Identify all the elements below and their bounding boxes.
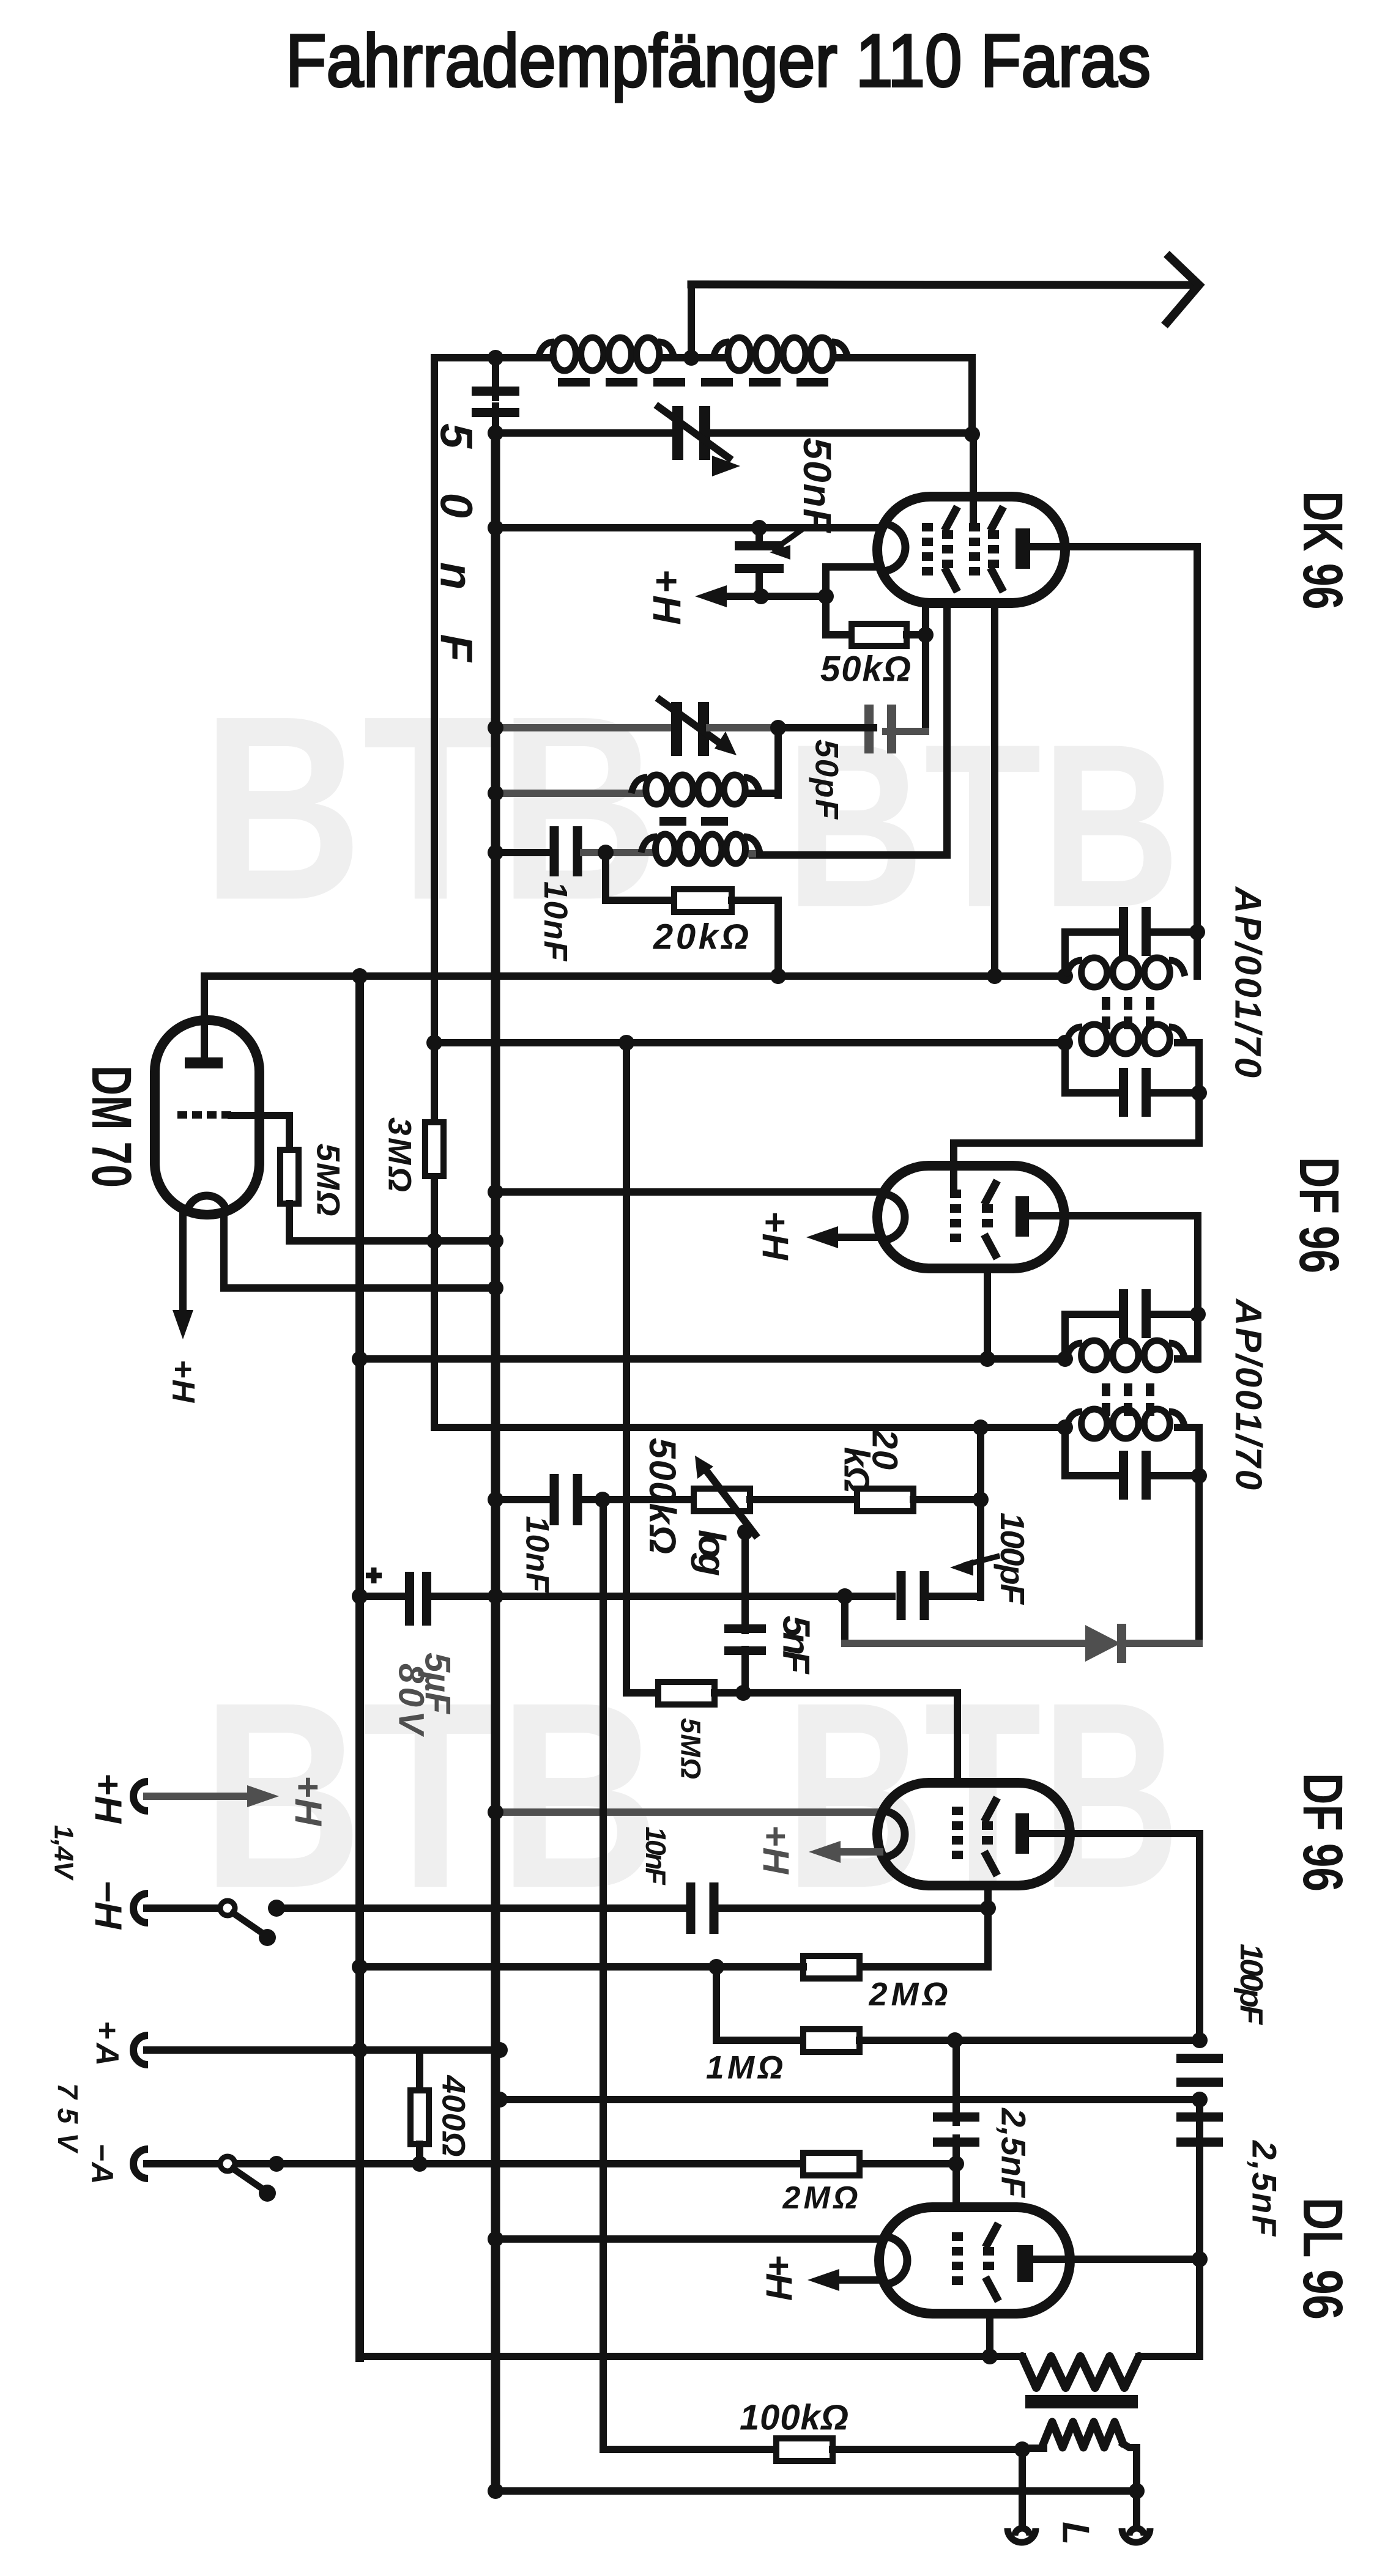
jack -H — [133, 1893, 148, 1923]
svg-text:+H: +H — [87, 1773, 129, 1824]
wire main bus V817 — [491, 433, 500, 2491]
node — [412, 2156, 428, 2172]
node — [982, 2348, 998, 2364]
wire — [1022, 2445, 1044, 2452]
capacitor 2.5nF b — [1176, 2112, 1223, 2122]
node — [1057, 1419, 1073, 1435]
tube DK96 grid g2 — [942, 530, 953, 539]
tube DM70 plate — [185, 1057, 223, 1068]
node — [1189, 924, 1205, 940]
IF1 core dashes — [1102, 997, 1110, 1010]
jack speaker 2 — [1122, 2528, 1150, 2542]
node — [980, 1900, 996, 1916]
wire — [662, 354, 726, 361]
node — [488, 2231, 503, 2247]
coil osc primary — [646, 775, 667, 804]
svg-text:+H: +H — [755, 1211, 796, 1261]
svg-text:50nF: 50nF — [795, 438, 839, 534]
node — [1057, 1351, 1073, 1367]
node — [1192, 2092, 1208, 2108]
node — [1057, 968, 1073, 984]
node — [918, 627, 934, 643]
potentiometer 500k — [694, 1489, 750, 1511]
wire — [277, 1904, 284, 1912]
node — [737, 1524, 753, 1540]
wire 20k branch — [606, 853, 674, 900]
wire DL96 plate lead — [1033, 2256, 1200, 2263]
node — [426, 1035, 442, 1051]
svg-text:+H: +H — [759, 2254, 800, 2301]
svg-text:2MΩ: 2MΩ — [869, 1976, 948, 2013]
node — [708, 1959, 724, 1975]
svg-text:500kΩ: 500kΩ — [642, 1438, 683, 1554]
node — [488, 2483, 503, 2499]
node — [947, 2032, 963, 2048]
wire DK96 g3 pin — [991, 603, 998, 976]
svg-text:2,5nF: 2,5nF — [1246, 2140, 1284, 2237]
wire — [741, 1649, 749, 1693]
wire osc fb row — [749, 850, 752, 857]
capacitor 5uF electrolytic — [405, 1572, 414, 1626]
wire V1603 — [977, 1427, 984, 1597]
tube DF96b plate — [1016, 1813, 1029, 1854]
wire DF96b g1 pin — [984, 1886, 992, 1908]
node — [492, 2092, 508, 2108]
wire — [710, 724, 778, 731]
node — [1191, 1085, 1207, 1101]
tube DF96a filament — [882, 1194, 905, 1240]
wire grid2 pin — [752, 602, 947, 855]
capacitor 10nF af — [550, 1474, 559, 1525]
node — [488, 1280, 503, 1296]
wire bus left — [431, 358, 438, 1427]
resistor 5M af — [658, 1682, 715, 1704]
node — [269, 2156, 284, 2172]
svg-text:5MΩ: 5MΩ — [310, 1144, 346, 1216]
node — [1191, 1468, 1207, 1484]
wire — [147, 1793, 245, 1800]
transformer core — [1025, 2395, 1138, 2408]
wire varcap2 row — [496, 724, 673, 731]
wire bottom bus — [496, 2487, 1137, 2495]
node — [352, 2042, 368, 2058]
wire avc row 2334 — [434, 1424, 1065, 1431]
wire — [927, 1593, 981, 1600]
resistor 20k osc — [674, 889, 732, 912]
node — [488, 720, 503, 736]
tube DM70 envelope — [155, 1020, 259, 1215]
node — [979, 1351, 995, 1367]
node — [1129, 2483, 1145, 2499]
node — [837, 1588, 853, 1604]
node — [1192, 2251, 1208, 2267]
wire osc coil row — [496, 790, 644, 797]
wire row 2610 — [360, 1593, 407, 1600]
wire filament row DF96a — [496, 1188, 878, 1196]
wire bus V1025 — [623, 1043, 630, 1693]
wire diode row — [845, 1640, 1085, 1647]
svg-text:DK 96: DK 96 — [1291, 492, 1354, 610]
wire grid pin — [922, 602, 929, 731]
svg-text:80V: 80V — [392, 1664, 431, 1737]
wire — [584, 849, 653, 856]
capacitor 50nF screen — [756, 528, 763, 546]
node — [1014, 2441, 1030, 2457]
wire jack drop L1 — [1019, 2449, 1026, 2525]
arrow +H — [695, 585, 727, 607]
wire — [907, 631, 926, 638]
wire DF96b plate lead — [1029, 1834, 1200, 2040]
wire — [716, 1967, 803, 2040]
node — [595, 1492, 611, 1508]
wire DF96a plate lead — [1029, 1216, 1198, 1314]
arrow +H down — [173, 1310, 193, 1339]
tube DF96b grid g1 — [982, 1821, 993, 1830]
tube DF96a grid g2 dots — [950, 1190, 961, 1198]
wire — [431, 1593, 845, 1600]
capacitor 10nF osc — [550, 826, 559, 876]
wire plate drop — [1194, 547, 1201, 976]
node — [598, 845, 614, 861]
svg-text:+H: +H — [165, 1360, 201, 1403]
variable capacitor C-tune — [672, 406, 683, 460]
wire g2 DF96b — [954, 1693, 961, 1784]
node — [488, 1804, 503, 1820]
jack -A — [133, 2149, 148, 2178]
node — [352, 968, 368, 984]
svg-text:10nF: 10nF — [519, 1516, 555, 1594]
svg-text:DF 96: DF 96 — [1288, 1157, 1350, 1273]
arrow +H DF96a — [833, 1234, 878, 1241]
node — [352, 1959, 368, 1975]
wire IF1 sec row — [434, 1039, 1065, 1046]
osc dashed core — [659, 817, 733, 826]
node — [818, 588, 834, 604]
svg-text:75V: 75V — [52, 2083, 84, 2153]
capacitor 5nF — [724, 1624, 766, 1633]
wire — [774, 728, 782, 795]
secondary winding zigzag — [1042, 2422, 1123, 2448]
tube DL96 plate — [1017, 2245, 1033, 2282]
wire +H row — [724, 593, 826, 600]
wire — [147, 2160, 221, 2167]
wire — [584, 1496, 694, 1503]
tube DF96a plate — [1016, 1196, 1029, 1237]
svg-text:400Ω: 400Ω — [436, 2075, 472, 2157]
wire filament row DF96b — [496, 1808, 878, 1816]
wire — [688, 284, 695, 358]
svg-text:100kΩ: 100kΩ — [740, 2398, 848, 2438]
coil osc tickler — [655, 834, 675, 864]
svg-text:+H: +H — [287, 1775, 329, 1826]
capacitor 50nF antenna — [492, 358, 499, 398]
wire wiper — [741, 1532, 749, 1630]
svg-text:1MΩ: 1MΩ — [706, 2050, 783, 2086]
wire grid row 2222 — [360, 1355, 1065, 1363]
wire DF96a g1 pin — [984, 1268, 991, 1359]
node — [1192, 2032, 1208, 2048]
wire DL96 g2 pin — [986, 2314, 993, 2356]
resistor 5M DM70 — [280, 1150, 299, 1204]
wire filament top — [496, 524, 878, 531]
capacitor 2.5nF a — [933, 2112, 979, 2122]
node — [1057, 1035, 1073, 1051]
jack +H — [133, 1782, 148, 1811]
wire — [711, 429, 972, 437]
svg-text:100pF: 100pF — [1233, 1944, 1269, 2025]
wire — [732, 900, 778, 976]
svg-text:10nF: 10nF — [640, 1827, 672, 1886]
svg-text:10nF: 10nF — [537, 881, 574, 962]
coil IF1 primary — [1082, 958, 1107, 987]
wire — [968, 358, 976, 434]
node — [948, 2156, 964, 2172]
svg-text:2MΩ: 2MΩ — [782, 2180, 858, 2216]
wire 100k row — [603, 1500, 776, 2449]
capacitor IF2a — [1061, 1314, 1069, 1359]
capacitor 50pF — [864, 705, 874, 753]
svg-text:log: log — [691, 1530, 733, 1576]
node — [488, 520, 503, 536]
svg-text:L: L — [1055, 2522, 1097, 2545]
wire — [717, 1904, 988, 1912]
coil IF2 secondary — [1082, 1409, 1107, 1438]
resistor 20k det — [857, 1489, 913, 1511]
svg-text:−H: −H — [87, 1880, 129, 1930]
svg-text:3MΩ: 3MΩ — [382, 1117, 418, 1192]
svg-text:DF 96: DF 96 — [1291, 1773, 1354, 1892]
resistor 1M — [803, 2029, 860, 2052]
svg-text:+H: +H — [645, 569, 689, 625]
arrow +H DF96b — [836, 1848, 880, 1856]
node — [426, 1233, 442, 1249]
capacitor 100pF out — [1176, 2054, 1223, 2063]
wire bias row 3538 — [148, 2160, 956, 2167]
antenna arrow — [1167, 257, 1199, 322]
tube DK96 grid g4 — [988, 530, 999, 539]
node — [973, 1492, 989, 1508]
tube DF96b grid g2 dots — [952, 1807, 963, 1815]
wire DM70 grid — [231, 1116, 289, 1150]
capacitor 100pF det — [897, 1571, 906, 1620]
tube DF96b envelope — [877, 1783, 1070, 1886]
resistor 50k — [852, 624, 907, 646]
node — [753, 588, 769, 604]
node — [352, 1351, 368, 1367]
node — [488, 1492, 503, 1508]
svg-text:+H: +H — [756, 1825, 796, 1875]
wire row 2452 — [496, 1496, 548, 1503]
node — [488, 845, 503, 861]
wire — [1178, 1314, 1198, 1359]
switch -A — [220, 2156, 235, 2171]
node — [735, 1685, 751, 1701]
coupling dashed line — [558, 378, 837, 387]
diode — [1085, 1625, 1121, 1662]
tube DL96 grid g1 dots — [952, 2232, 963, 2241]
wire — [845, 1593, 892, 1600]
wire diode branch — [841, 1596, 848, 1643]
svg-text:5nF: 5nF — [775, 1616, 817, 1675]
node — [964, 426, 980, 442]
wire 5M row — [626, 1689, 658, 1697]
node — [488, 785, 503, 801]
resistor 400 Ohm — [416, 2050, 423, 2090]
node — [1190, 1306, 1206, 1322]
node — [488, 1588, 503, 1604]
svg-text:2,5nF: 2,5nF — [995, 2108, 1033, 2199]
node — [770, 720, 786, 736]
node — [987, 968, 1003, 984]
resistor 2M second — [803, 2153, 860, 2175]
tube DM70 filament — [187, 1196, 226, 1211]
tube DL96 envelope — [879, 2207, 1070, 2314]
jack +A — [133, 2035, 148, 2065]
wire — [913, 1496, 981, 1503]
wire plate bus V589 — [355, 976, 364, 2358]
wire screen row 3853 — [360, 2353, 1022, 2360]
svg-text:50kΩ: 50kΩ — [820, 650, 911, 689]
jack speaker 1 — [1008, 2528, 1036, 2542]
wire row 3336 — [860, 2037, 1200, 2044]
wire 50pF row — [886, 728, 926, 735]
switch -H — [220, 1901, 235, 1915]
coil IF1 secondary — [1082, 1024, 1107, 1054]
node — [683, 350, 699, 366]
resistor 3M — [425, 1122, 444, 1176]
coil IF2 primary — [1082, 1341, 1107, 1370]
wire — [715, 1689, 957, 1697]
node — [488, 425, 503, 441]
wire — [750, 1496, 857, 1503]
variable capacitor osc — [671, 702, 682, 756]
tube DF96a grid g1 — [982, 1204, 993, 1213]
capacitor IF1b — [1061, 1043, 1069, 1093]
tube DK96 plate — [1016, 528, 1030, 569]
wire to 50k — [826, 596, 852, 635]
wire DM70 fil right — [224, 1213, 496, 1288]
wire row 3216 — [360, 1963, 803, 1971]
wire row +A — [147, 2046, 500, 2054]
tube DF96b filament — [882, 1811, 905, 1857]
tube DK96 grid g3 dots — [969, 523, 980, 531]
wire — [954, 1043, 1199, 1194]
primary winding zigzag — [1022, 2356, 1139, 2388]
wire — [804, 1908, 988, 1967]
tube DL96 grid g2 — [983, 2247, 994, 2256]
svg-text:−A: −A — [85, 2144, 119, 2185]
resistor 100k — [776, 2438, 833, 2461]
svg-text:5MΩ: 5MΩ — [675, 1718, 707, 1779]
wire filament bottom — [826, 567, 878, 596]
wire — [289, 1204, 496, 1241]
wire DK96 plate lead — [1030, 543, 1197, 550]
wire — [833, 2446, 1022, 2453]
IF2 core dashes — [1102, 1383, 1110, 1396]
wire plate chain — [1196, 2100, 1203, 2259]
wire DM70 fil left — [179, 1213, 187, 1322]
tube DK96 filament — [882, 524, 905, 571]
wire grid1 DK96 from coil — [970, 434, 977, 525]
arrow to +H net — [247, 1785, 279, 1807]
wire — [836, 354, 972, 361]
node — [618, 1035, 634, 1051]
wire 10nF row — [496, 849, 548, 856]
svg-text:20kΩ: 20kΩ — [653, 917, 749, 957]
svg-text:DM 70: DM 70 — [80, 1065, 143, 1188]
resistor 2M first — [803, 1956, 860, 1978]
coil L1 — [553, 338, 576, 371]
wire row 3433 — [500, 2096, 1200, 2103]
tube DL96 filament — [883, 2237, 907, 2284]
wire bus 1596 — [204, 972, 1065, 980]
wire — [1178, 1427, 1199, 1643]
tube DM70 grid dots — [177, 1111, 187, 1119]
wire — [748, 790, 778, 797]
node — [352, 1588, 368, 1604]
node — [973, 1419, 989, 1435]
tube DK96 envelope — [877, 497, 1065, 603]
tube DK96 grid g1 dots — [922, 523, 933, 531]
wire filament row DL96 — [496, 2235, 880, 2243]
node — [488, 1184, 503, 1200]
node — [751, 520, 767, 536]
capacitor IF1a — [1061, 932, 1069, 976]
wire — [1123, 2444, 1137, 2491]
svg-text:1,4V: 1,4V — [49, 1825, 79, 1881]
wire tuning row — [496, 429, 672, 437]
node — [488, 350, 503, 366]
svg-text:Fahrradempfänger 110 Faras: Fahrradempfänger 110 Faras — [286, 19, 1151, 102]
capacitor 10nF grid — [686, 1882, 696, 1934]
tube DF96a envelope — [877, 1166, 1064, 1268]
node — [770, 968, 786, 984]
wire grid row 3120 — [284, 1904, 691, 1912]
capacitor IF2b — [1061, 1427, 1069, 1476]
wire antenna line — [691, 284, 1190, 285]
coil L2 — [728, 338, 751, 371]
svg-text:+A: +A — [89, 2021, 125, 2066]
svg-text:DL 96: DL 96 — [1291, 2197, 1354, 2320]
wire loop top — [434, 354, 551, 361]
arrow +H DL96 — [834, 2276, 880, 2284]
wire jack drop L2 — [1133, 2491, 1140, 2525]
wire — [1139, 2353, 1200, 2360]
svg-text:50pF: 50pF — [809, 739, 845, 820]
node — [488, 1233, 503, 1249]
node — [492, 2042, 508, 2058]
wire — [147, 1904, 221, 1912]
